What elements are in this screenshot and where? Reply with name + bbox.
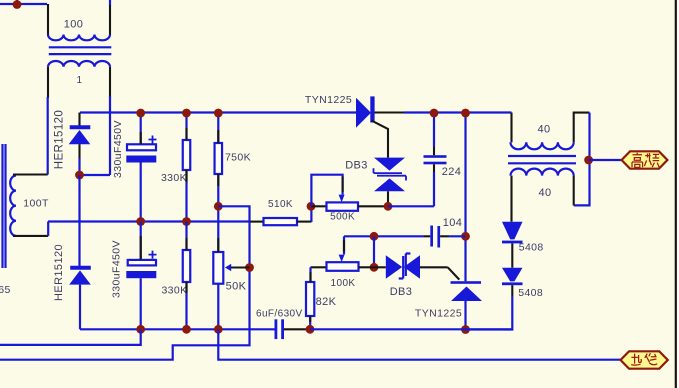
junction dot bus Q2 column (461, 109, 470, 118)
svg-text:DB3: DB3 (345, 160, 368, 172)
junction dot R2/R50K tap (214, 202, 223, 211)
potentiometer RP1 50K (213, 252, 223, 284)
svg-text:100: 100 (64, 19, 84, 31)
resistor R1 330K upper lead (185, 113, 187, 141)
diac DB3 upper (374, 158, 405, 171)
gate wire Q2 (448, 267, 460, 279)
transformer T1 secondary lead right (109, 67, 111, 97)
junction dot 104 left (370, 232, 379, 241)
capacitor C1 330uF450V (149, 136, 157, 144)
svg-text:6uF/630V: 6uF/630V (256, 308, 303, 319)
net label ground text (631, 353, 657, 365)
capacitor C4 104 (430, 226, 433, 247)
transformer T1 secondary winding 1 (48, 61, 110, 67)
middle rail wire (48, 220, 250, 222)
svg-text:HER15120: HER15120 (53, 244, 65, 301)
transformer T1 primary lead left (47, 4, 49, 35)
svg-text:330K: 330K (161, 285, 187, 297)
junction dot bus R2 (214, 109, 223, 118)
junction dot rail C2 (136, 325, 145, 334)
resistor R3 330K lower (185, 222, 187, 251)
svg-text:224: 224 (442, 166, 462, 178)
junction dot output tap (584, 156, 593, 165)
svg-text:500K: 500K (330, 212, 355, 223)
svg-text:330uF450V: 330uF450V (112, 120, 124, 178)
output transformer T2 lead top-right (574, 113, 590, 143)
component pin stubs (black) (141, 128, 344, 322)
junction dot 50K wiper on W2 (245, 263, 254, 272)
junction dot Q2 anode (461, 325, 470, 334)
transformer T1 core (49, 47, 112, 54)
diode D3 5408 upper (502, 222, 523, 240)
svg-text:100K: 100K (331, 278, 356, 289)
junction dot DB3 bottom (384, 202, 393, 211)
junction dot rail RP1 (214, 325, 223, 334)
transformer T1 primary lead right (109, 0, 111, 6)
svg-text:5408: 5408 (518, 287, 543, 299)
wire output tap to label (589, 159, 622, 161)
junction dot rail 82K (306, 325, 315, 334)
svg-text:50K: 50K (226, 281, 247, 293)
wire W1 to left edge (0, 329, 141, 345)
junction dot rail R3 (182, 325, 191, 334)
wire bus to Q2 column (464, 113, 466, 282)
diac DB3 lower lead left (374, 266, 386, 268)
wire T1 left lead down to input transformer (47, 97, 49, 175)
capacitor C3 224 (424, 155, 447, 158)
output transformer T2 lead bottom-left (510, 176, 512, 222)
junction dot bus C1 (136, 109, 145, 118)
input transformer TL winding 100T (10, 176, 16, 236)
wire gate row to C3 (388, 205, 434, 207)
svg-text:750K: 750K (225, 152, 251, 164)
junction dot mid C1/C2 (136, 217, 145, 226)
output transformer T2 primary winding 40 (511, 142, 574, 149)
capacitor C1 330uF450V upper lead (140, 113, 142, 145)
wire W3 to ground label (218, 329, 620, 359)
output transformer T2 lead top-left (510, 113, 512, 143)
svg-text:330K: 330K (161, 172, 187, 184)
diode D4 5408 lower (502, 268, 523, 282)
wire right lead to node A (80, 174, 111, 176)
svg-text:82K: 82K (316, 296, 337, 308)
wire wiper row to 104 (344, 235, 424, 237)
svg-text:DB3: DB3 (390, 286, 413, 298)
svg-text:100T: 100T (23, 198, 49, 210)
wire 510K right to node B (297, 221, 311, 223)
wire stub up from node (16, 0, 18, 6)
right border line (675, 0, 677, 388)
output transformer T2 secondary winding 40 (511, 169, 574, 176)
wire tap to feedback (W2) (0, 206, 250, 359)
svg-text:5408: 5408 (519, 242, 544, 254)
wire bus corner down to diode D1 (78, 113, 80, 127)
wire TL bottom lead up to mid rail (47, 222, 49, 236)
transformer T1 secondary lead left (47, 67, 49, 98)
junction dot node B (307, 202, 316, 211)
wiper arrow 100K (343, 236, 345, 254)
top bus wire (80, 111, 356, 113)
wire AC input top-left (0, 3, 47, 5)
wire T2 right side (574, 113, 590, 206)
potentiometer RP2 500K (311, 205, 327, 207)
capacitor C3 224 lead (433, 113, 435, 148)
resistor R5 82K (309, 267, 311, 282)
junction dot mid R1/R3 (182, 217, 191, 226)
svg-text:104: 104 (443, 217, 463, 229)
svg-text:510K: 510K (268, 199, 293, 210)
input transformer TL core (3, 144, 6, 268)
net label output hexagon (622, 151, 668, 168)
resistor R1 330K upper (183, 140, 191, 170)
svg-text:40: 40 (537, 124, 550, 136)
gate wire Q1 (372, 121, 389, 158)
resistor R2 750K lead (217, 113, 219, 144)
junction dot gate row (370, 263, 379, 272)
resistor R4 510K lead left (250, 221, 264, 223)
output transformer T2 core (508, 156, 576, 163)
transformer T1 primary winding 100 (48, 35, 110, 41)
diode D1 HER15120 upper (70, 125, 91, 129)
junction dot top-left (13, 0, 22, 9)
wire node A down (78, 175, 80, 266)
junction dot 104 right (461, 232, 470, 241)
input transformer TL top lead (13, 173, 48, 175)
svg-text:40: 40 (538, 187, 551, 199)
net label ground hexagon (621, 351, 668, 368)
diac DB3 lower (386, 255, 402, 278)
resistor R2 750K (215, 143, 223, 174)
svg-text:65: 65 (0, 284, 11, 296)
thyristor Q2 TYN1225 bottom (451, 281, 482, 284)
wire 104 node down to gate row (373, 236, 375, 267)
wiper arrow 500K (339, 195, 345, 203)
net label output text (632, 153, 659, 168)
diode D2 HER15120 lower (70, 266, 91, 270)
input transformer TL bottom lead (13, 235, 48, 237)
output transformer T2 lead bottom-right (573, 176, 575, 206)
junction dot node A (75, 171, 84, 180)
junction dot bus C3 (430, 109, 439, 118)
resistor R4 510K (264, 218, 298, 225)
potentiometer RP3 100K (311, 266, 327, 268)
svg-text:1: 1 (77, 75, 83, 86)
bottom rail wire left (80, 328, 275, 330)
svg-text:TYN1225: TYN1225 (415, 308, 462, 320)
capacitor C5 6uF/630V (275, 319, 278, 339)
thyristor Q1 TYN1225 top (356, 98, 371, 128)
bottom rail wire right (310, 328, 512, 330)
capacitor C2 330uF450V lower (140, 222, 142, 260)
svg-text:TYN1225: TYN1225 (305, 94, 352, 106)
junction dot bus R1 (182, 109, 191, 118)
wiper loop 500K (311, 175, 342, 207)
wire T1 right lead down (109, 96, 111, 175)
svg-text:HER15120: HER15120 (54, 110, 66, 169)
wiper arrow 50K (225, 264, 231, 272)
top bus right of thyristor (375, 111, 405, 113)
svg-text:330uF450V: 330uF450V (111, 240, 123, 298)
